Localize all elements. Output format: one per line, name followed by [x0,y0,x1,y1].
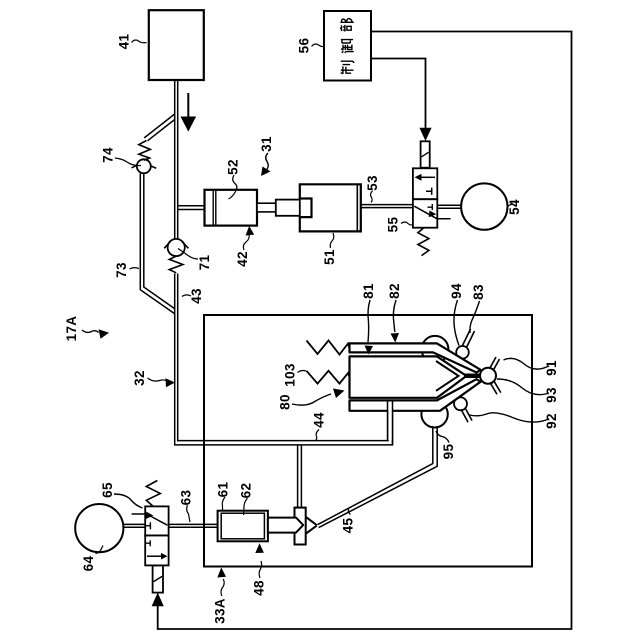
label 17A with arrow [64,316,79,342]
guide roller circle 83 top [456,346,469,359]
svg-text:82: 82 [387,283,402,299]
spring of valve 74 [139,141,151,161]
valve 65 solenoid [153,565,163,592]
spring of valve 71 [169,256,183,273]
cylinder body 51 [300,184,361,231]
label 44 [312,412,327,428]
label 74 [101,147,116,163]
svg-text:95: 95 [441,444,456,460]
valve 55 upper arrow [420,176,435,178]
valve 74 seat lines [132,165,157,168]
piston rod between 52 and 51 [257,203,276,212]
svg-text:74: 74 [101,147,116,163]
label 92 leader [544,413,559,429]
droplet circle 91 at tip [480,368,496,384]
svg-text:17A: 17A [64,316,79,342]
label 43 [189,288,204,304]
pipe 73 [140,173,174,313]
label 71 [197,255,212,271]
valve 65 lower blocked T [145,540,150,546]
valve 55 body lower box [413,199,437,228]
svg-text:54: 54 [507,199,522,215]
label 93 leader [544,387,559,403]
label 52 [226,159,241,175]
svg-text:73: 73 [114,262,129,278]
label 82 leader with arrow [387,283,402,299]
pipe 63 from valve to box 61 [169,524,218,527]
svg-text:41: 41 [117,34,132,50]
valve 65 spring [146,481,160,507]
svg-text:63: 63 [179,490,194,506]
flow arrow [187,93,189,118]
whiskers top pair [463,329,475,348]
label 42 with arrow [235,251,250,267]
wire feed roller bottom circle [421,401,447,427]
label 62 [239,483,254,499]
label 91 leader [544,360,559,376]
svg-text:80: 80 [278,394,293,410]
label 95 [441,444,456,460]
check valve 74 circle [137,159,151,173]
main pipe from 41 (line 43) [175,80,178,239]
gas source box 41 [149,10,204,80]
piston of cylinder 52 [213,191,216,225]
kanji 部 [340,19,354,32]
label 94 leader [449,283,464,299]
arrow into solenoid of valve 55 [420,128,431,140]
svg-text:83: 83 [471,284,486,300]
guide roller circle 92 bottom [454,397,467,410]
coupling block [276,200,300,216]
svg-text:53: 53 [365,175,380,191]
svg-text:31: 31 [259,136,274,152]
pipe to actuator 54 [437,205,461,208]
svg-text:45: 45 [341,518,356,534]
svg-text:81: 81 [361,283,376,299]
svg-text:92: 92 [544,413,559,429]
actuator circle 54 [461,183,507,229]
svg-text:51: 51 [322,249,337,265]
label 33A with arrow [213,598,228,624]
label 53 [365,175,380,191]
torch outer tube top strip [350,343,481,372]
label 80 with arrow [278,394,293,410]
pipe 53 [361,205,413,208]
valve 71 seat lines [164,241,188,248]
label 103 [283,363,298,387]
wire feed roller top circle [422,336,449,363]
branch pipe to cylinder 42 [178,206,205,210]
svg-text:33A: 33A [213,598,228,624]
valve 55 solenoid [421,141,430,167]
gas cartridge inner box 62 [221,513,264,539]
svg-text:91: 91 [544,360,559,376]
label 31 with arrow [259,136,274,152]
label 83 leader [471,284,486,300]
gas cartridge outer box 61 [218,511,268,542]
label 56 [297,38,312,54]
valve 55 upper blocked port T [426,188,432,195]
label 61 [216,482,231,498]
control wire to valve 33A (long frame wire) [158,32,572,630]
torch outer tube bottom strip [350,379,481,411]
torch body 80 [350,356,467,397]
cylinder 51 inner wall [356,184,358,231]
svg-text:94: 94 [449,283,464,299]
piston rod with arrow head from box 61 [268,518,303,533]
kanji 御 [341,40,354,53]
label 54 [507,199,522,215]
spring 81 zigzag [307,341,350,355]
pneumatic source circle 64 [75,504,123,552]
valve 65 lower arrow [147,555,161,557]
label 73 [114,262,129,278]
cylinder body 42 [205,190,258,226]
valve 65 upper box [145,506,168,535]
whiskers bottom pair [461,408,472,423]
label 63 [179,490,194,506]
svg-text:62: 62 [239,483,254,499]
pipe from Y joint up to line 44 [298,445,302,508]
svg-text:64: 64 [81,556,96,572]
label 32 with arrow [132,370,147,386]
svg-text:52: 52 [226,159,241,175]
svg-text:93: 93 [544,387,559,403]
label 45 [341,518,356,534]
svg-text:43: 43 [189,288,204,304]
arrow into solenoid of valve 33A [152,594,163,606]
pipe from torch bracket down to line 44 [388,402,392,440]
electrode wire [464,374,482,379]
check valve 71 circle [168,239,185,256]
valve 55 lower blocked port T [428,204,433,210]
kanji 制 [341,61,354,74]
label 65 [100,482,115,498]
Y joint arms [306,517,317,534]
label 64 [81,556,96,572]
whiskers tip lower pair [490,381,501,395]
valve 65 lower box [145,535,168,565]
svg-text:48: 48 [252,580,267,596]
spring 103 zigzag [307,371,350,384]
label 55 [386,217,401,233]
valve 55 lower diagonal path [414,206,450,219]
branch pipe to check valve 74 [144,114,175,141]
control unit box 56 [324,11,371,81]
contact tip inner chevron [436,361,459,391]
Y joint body [295,508,306,545]
svg-text:65: 65 [100,482,115,498]
valve 65 upper diagonal with arrow [132,514,168,525]
svg-text:71: 71 [197,255,212,271]
label 48 with arrow [252,580,267,596]
pipe from 64 to valve 65 [123,524,145,527]
big chamber box 33A [204,315,532,567]
whiskers tip upper pair [490,357,500,371]
svg-text:103: 103 [283,363,298,387]
valve 55 spring [418,228,429,256]
svg-text:32: 32 [132,370,147,386]
svg-text:44: 44 [312,412,327,428]
label 41 [117,34,132,50]
valve 65 upper blocked T [145,522,150,529]
svg-text:55: 55 [386,217,401,233]
label 51 [322,249,337,265]
label 81 leader with arrow [361,283,376,299]
svg-text:42: 42 [235,251,250,267]
pipe 45 from roller down to Y-joint [318,426,438,528]
main pipe lower + line 44 [175,274,393,445]
control wire to valve 55 [371,59,426,129]
svg-text:61: 61 [216,482,231,498]
valve 55 body upper box [413,168,437,199]
svg-text:56: 56 [297,38,312,54]
